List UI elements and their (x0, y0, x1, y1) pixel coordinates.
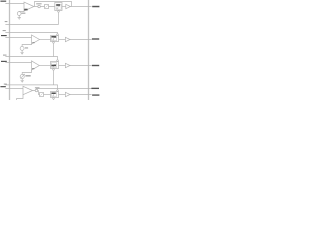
X1 icon (56, 4, 61, 9)
wire jog down row4 (39, 91, 40, 95)
op-amp U3 (32, 61, 40, 70)
label I3 (25, 75, 30, 76)
wire output row3 (70, 65, 92, 67)
label output1 (92, 6, 99, 7)
wire X4 to buffer4 (59, 94, 66, 96)
label X4 (52, 93, 56, 94)
op-amp U4 (23, 86, 33, 94)
wire I3 to U3 inverting input (22, 70, 31, 74)
label X3 (51, 65, 56, 67)
buffer B1 (66, 4, 71, 8)
label input4 (0, 86, 5, 87)
left border rail (9, 0, 11, 100)
node sum4 (35, 89, 38, 92)
wire bypass row1 (35, 2, 72, 7)
label output4b (92, 94, 99, 95)
label X1 (56, 4, 60, 6)
wire X2 to buffer2 (59, 39, 66, 41)
label X2 (51, 36, 56, 37)
wire X3 to buffer3 (59, 65, 66, 67)
label clock4 (4, 84, 7, 85)
label output2 (92, 38, 99, 39)
sample-hold block X4 (51, 92, 59, 98)
X3 clock bubble top (57, 60, 59, 62)
wire clock4 (5, 85, 57, 90)
wire clock1 riser (58, 12, 60, 24)
wire X2 bottom clock drop (53, 43, 55, 56)
X3 icon (52, 63, 57, 68)
voltage source V2 (20, 46, 24, 50)
I3 arrow (21, 74, 25, 79)
wire V2 to U2 inverting input (22, 44, 31, 46)
X2 clock bubble top (57, 34, 59, 36)
wire clock2 (5, 33, 57, 34)
wire output row2 (70, 39, 92, 41)
wire X4 bottom stub (53, 98, 55, 101)
wire U2 output (40, 39, 51, 41)
label clock2 (3, 30, 6, 31)
op-amp U2 (32, 35, 40, 44)
wire input row3 (5, 62, 31, 64)
wire input row1 (5, 3, 24, 5)
label clock3 (3, 55, 7, 56)
wire U4 output (33, 90, 39, 92)
label output3 (92, 65, 99, 66)
wire X3 bottom clock drop (53, 70, 55, 85)
ground G2 (20, 50, 23, 54)
label U3 (32, 68, 34, 69)
ground G3 (21, 79, 24, 83)
wire V1 to U1 inverting input (19, 10, 24, 13)
label V1 (22, 12, 26, 15)
X2 icon (52, 36, 57, 40)
label input1 (0, 1, 6, 2)
sample-hold block X1 (55, 3, 62, 11)
label input2 (1, 35, 7, 36)
ground G1 (18, 15, 21, 19)
label U1 (24, 9, 27, 11)
buffer B3 (65, 63, 70, 67)
wire output row1 (70, 6, 91, 8)
wire X5 to X4 (44, 94, 51, 96)
label clock1 (5, 21, 8, 22)
wire U3 output (39, 65, 50, 67)
voltage source V1 (17, 12, 21, 16)
right border rail (88, 0, 90, 100)
X4 clock bubble bottom (53, 98, 55, 100)
sample-hold block X3 (51, 62, 59, 69)
buffer B2 (65, 37, 70, 41)
X4 icon (52, 93, 57, 97)
label output4a (91, 88, 99, 89)
label sum4 (35, 86, 40, 89)
label input3 (1, 61, 7, 62)
wire V4 to U4 inverting input (17, 95, 23, 100)
gain block X1a (45, 5, 49, 9)
sample-hold block X2 (51, 36, 59, 42)
node sum1 (38, 5, 41, 8)
label V2 (25, 47, 28, 50)
wire output row4 (70, 94, 92, 96)
current source I3 (20, 75, 24, 79)
wire clock3 (5, 57, 57, 60)
wire X1 to buffer1 (62, 6, 66, 8)
gain block X5 (40, 93, 44, 97)
wire clock1 (5, 24, 58, 26)
label U2 (32, 42, 34, 43)
op-amp U1 (24, 2, 34, 11)
buffer B4 (65, 92, 70, 96)
wire sum4 tap to right (37, 88, 92, 91)
X2 clock bubble bottom (53, 42, 55, 44)
X1 clock bubble (58, 11, 60, 13)
X4 clock bubble top (57, 90, 59, 92)
X3 clock bubble bottom (53, 69, 55, 71)
label sum1 (36, 2, 41, 5)
wire input row4 (5, 88, 23, 90)
wire input row2 (5, 37, 31, 39)
wire U1 output (34, 6, 55, 8)
